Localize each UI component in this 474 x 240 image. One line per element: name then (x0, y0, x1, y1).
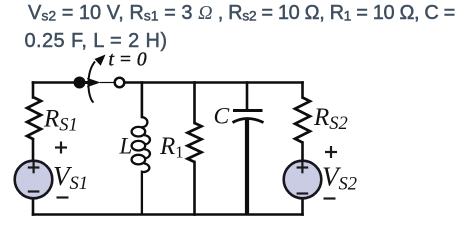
svg-text:Vs2 = 10 V, Rs1 = 3 Ω , Rs2 =: Vs2 = 10 V, Rs1 = 3 Ω , Rs2 = 10 Ω, R1 =… (28, 2, 455, 24)
svg-text:t = 0: t = 0 (109, 50, 147, 71)
svg-text:C: C (214, 104, 230, 130)
svg-text:L: L (119, 134, 133, 159)
